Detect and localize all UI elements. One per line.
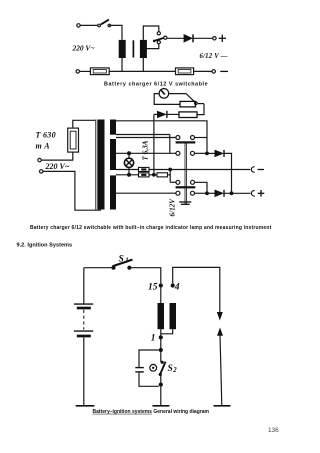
wire — [167, 37, 184, 39]
ignition coil secondary — [170, 303, 177, 329]
wire — [169, 170, 171, 183]
switch S lower bridge — [176, 186, 196, 188]
svg-text:15: 15 — [148, 282, 158, 292]
switch S upper bridge — [176, 141, 196, 143]
wire secondary drop — [142, 58, 144, 72]
wire to ground — [160, 387, 162, 405]
wire meter right diagonal — [169, 94, 196, 103]
wire meter left — [154, 94, 180, 105]
wire S2-top tap — [116, 137, 176, 139]
capacitor C1 branch — [139, 350, 159, 367]
selector pole — [164, 36, 167, 39]
wire input bottom to primary — [43, 171, 101, 210]
node — [159, 348, 163, 352]
selector contact 6V — [157, 41, 160, 44]
node — [159, 383, 163, 387]
terminal input bottom-left — [76, 70, 79, 73]
wire — [160, 288, 162, 303]
wire — [224, 153, 232, 193]
diode D1 — [184, 34, 193, 43]
wire — [168, 174, 171, 176]
wire fuse2 line — [116, 174, 139, 176]
wire bus A — [197, 104, 204, 115]
node terminal 1 — [159, 335, 163, 339]
svg-text:Battery charger 6/12 switchabl: Battery charger 6/12 switchable with bui… — [30, 225, 272, 231]
node — [205, 152, 209, 156]
resistor R3 — [157, 173, 168, 177]
switch actuator bars — [179, 201, 191, 203]
selector contact 12V — [157, 32, 160, 35]
transformer T2 primary — [95, 120, 97, 210]
svg-text:1: 1 — [151, 333, 156, 343]
transformer T1 secondary — [140, 40, 147, 58]
svg-text:6/12V: 6/12V — [169, 198, 177, 217]
wire bottom rail — [109, 70, 175, 72]
transformer T1 primary — [119, 40, 126, 58]
battery B1 — [83, 268, 85, 304]
resistor R2 — [179, 112, 197, 118]
wire to lower switch — [170, 181, 176, 183]
ignition coil primary — [158, 303, 165, 329]
wire — [80, 24, 98, 26]
selector arm — [153, 40, 156, 43]
wire S1-bottom tap — [116, 134, 170, 136]
fuse F2 output — [176, 68, 194, 75]
switch S lower contacts — [176, 180, 180, 184]
wire top rail left — [84, 267, 112, 269]
fuse F4 — [139, 173, 150, 177]
wire — [195, 192, 206, 194]
wire top rail right — [132, 268, 161, 284]
switch S upper contacts — [176, 136, 180, 140]
wire — [193, 37, 213, 39]
node lamp bottom — [127, 173, 131, 177]
terminal clip minus — [251, 167, 254, 173]
svg-text:4: 4 — [174, 282, 180, 292]
wire — [109, 25, 122, 40]
wire — [195, 182, 208, 193]
node terminal 15 — [159, 283, 163, 287]
wire fuse to primary — [73, 120, 96, 128]
wire top rail — [116, 121, 207, 154]
wire secondary top to selector — [143, 26, 159, 40]
ground breaker — [153, 405, 170, 407]
resistor R1 shunt — [180, 101, 196, 107]
meter M1 — [159, 89, 169, 99]
terminal plus — [213, 37, 216, 40]
transformer T2 secondary section3 — [110, 175, 116, 209]
fuse T630mA — [68, 128, 79, 152]
switch mechanical link shaft — [184, 144, 186, 205]
breaker S2 — [160, 352, 162, 362]
wire — [195, 137, 208, 139]
wire minus line — [116, 169, 139, 171]
lamp H1 — [124, 158, 133, 167]
terminal input bottom — [40, 170, 43, 173]
wire tap 6V — [147, 44, 159, 49]
wire S3 tap — [116, 192, 176, 194]
wire link — [169, 135, 171, 154]
svg-text:S: S — [168, 364, 173, 374]
contact circle — [195, 102, 198, 105]
switch S1 — [111, 266, 115, 270]
wire — [80, 70, 91, 72]
svg-text:220 V~: 220 V~ — [72, 44, 96, 53]
wire — [160, 340, 162, 349]
transformer core — [132, 40, 134, 57]
svg-text:6/12 V —: 6/12 V — — [200, 53, 228, 60]
svg-text:2: 2 — [172, 367, 177, 374]
terminal clip plus — [251, 190, 254, 196]
node — [205, 191, 209, 195]
wire — [224, 192, 250, 194]
wire — [149, 174, 157, 176]
node lamp top — [127, 151, 131, 155]
diode D2 — [154, 113, 157, 115]
wire — [195, 152, 206, 154]
node — [230, 191, 234, 195]
node V1 end — [152, 173, 156, 177]
breaker cam — [150, 364, 157, 371]
diode D3 — [209, 152, 215, 154]
spark gap electrode top — [217, 312, 223, 321]
transformer T2 secondary section1 — [110, 120, 116, 135]
svg-text:136: 136 — [268, 427, 279, 434]
fuse F3 — [139, 167, 150, 171]
wire minus line continues — [149, 169, 250, 171]
wire — [198, 103, 204, 105]
fuse F1 — [90, 68, 109, 75]
svg-text:T 630: T 630 — [36, 131, 56, 140]
terminal input top — [38, 158, 41, 161]
wire — [194, 70, 212, 72]
diode D4 — [209, 192, 215, 194]
wire HV to gap — [173, 267, 220, 313]
svg-text:T 6,3A: T 6,3A — [142, 140, 150, 160]
terminal minus — [212, 70, 215, 73]
node — [168, 168, 172, 172]
svg-text:m A: m A — [36, 142, 51, 151]
spark gap electrode bottom — [217, 328, 223, 336]
node terminal 4 — [171, 283, 175, 287]
wire input top to fuse — [41, 152, 73, 160]
wire lamp line — [116, 152, 176, 154]
svg-text:Battery charger 6/12 V switcha: Battery charger 6/12 V switchable — [104, 81, 208, 87]
wire secondary bottom — [161, 329, 173, 334]
transformer T2 secondary section2 — [110, 139, 116, 170]
wire primary drop — [121, 58, 123, 72]
svg-text:9.2. Ignition Systems: 9.2. Ignition Systems — [17, 242, 73, 248]
ground battery — [76, 405, 95, 407]
svg-text:Battery–ignition systems Gener: Battery–ignition systems General wiring … — [93, 409, 210, 415]
terminal input top-left — [77, 24, 80, 27]
wire — [160, 329, 162, 335]
wire V1 — [153, 114, 155, 174]
switch mains — [98, 24, 101, 27]
svg-text:220 V~: 220 V~ — [45, 162, 70, 171]
ground spark gap — [214, 405, 231, 407]
